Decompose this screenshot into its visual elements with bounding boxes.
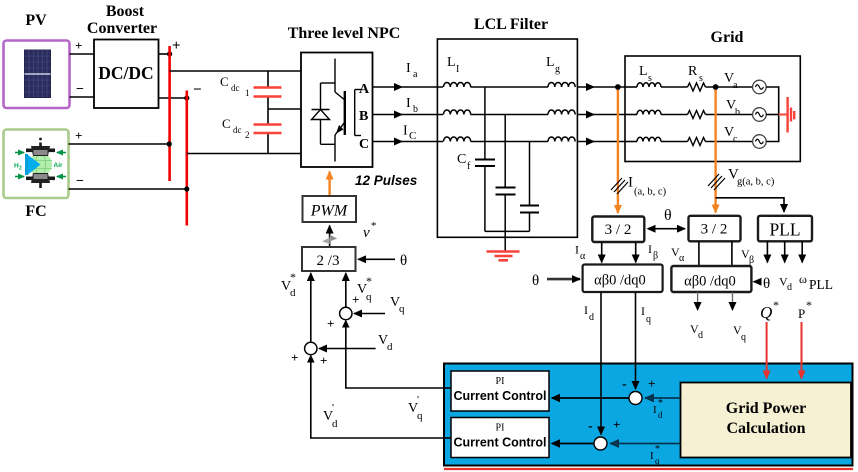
summer S1 (Vq) [340,307,352,319]
node FC- [184,186,189,191]
svg-text:Q: Q [760,303,772,322]
svg-text:αβ0 /dq0: αβ0 /dq0 [594,273,646,289]
transform block 3/2 (voltage) [689,216,741,242]
svg-text:dc: dc [233,125,242,135]
svg-text:PLL: PLL [809,277,833,292]
summer S2 (Vd) [305,342,317,354]
wire Vd into S2 [319,348,376,350]
PI current control 1 [451,371,549,411]
PLL block [758,216,812,242]
svg-text:+: + [352,292,359,307]
svg-text:I: I [650,450,654,462]
wire Vq into S1 [354,313,385,315]
PWM block [303,196,357,222]
svg-text:*: * [773,298,779,312]
bottom electrode [26,177,55,181]
svg-text:I: I [406,61,411,76]
svg-text:C: C [220,74,229,89]
wire theta exchange (double arrow) [648,228,685,230]
wire PLL out theta [766,241,768,262]
svg-text:s: s [699,73,703,84]
inductor Lg a [548,83,575,88]
wire Id* into S3 [645,397,681,399]
svg-text:q: q [366,291,372,303]
svg-text:*: * [655,444,660,455]
svg-text:α: α [580,251,586,262]
IGBT symbol [335,59,361,162]
wire Id down to summer [600,292,602,435]
capacitor Cdc1 [254,86,282,88]
wire PV- to DC/DC [70,96,95,98]
svg-text:d: d [290,287,296,299]
svg-text:Calculation: Calculation [726,420,805,437]
FC box [4,130,69,199]
svg-text:+: + [291,350,298,365]
transform block 2/3 [302,247,356,271]
ground (red) [487,252,520,261]
wire PI1 output stub [444,387,452,389]
wire PI2 output stub [444,437,452,439]
LCL filter box [437,39,577,237]
svg-text:f: f [467,161,471,172]
svg-text:P: P [798,306,805,321]
svg-text:C: C [222,116,231,131]
wire DC/DC+ to bus [159,53,171,55]
wire FC- to bus2 [69,188,188,190]
svg-text:Grid: Grid [711,29,744,46]
PV panel graphic [25,50,51,98]
wire LCL out A [577,86,625,88]
node FC+ [167,141,172,146]
wire phase C to LCL [373,141,444,143]
wire Iq down to summer [635,292,637,389]
wire phase A to LCL [373,86,444,88]
node current sense [615,84,621,90]
wire DC link top rail [170,70,301,72]
svg-text:a: a [733,80,738,91]
top electrode [26,149,55,153]
svg-text:L: L [639,64,648,79]
node sense V redraw [713,84,719,90]
wire sources to neutral [766,87,779,142]
svg-text:+: + [648,376,655,391]
svg-text:θ: θ [532,273,539,289]
svg-text:2 /3: 2 /3 [317,253,340,269]
source Vc [753,135,767,149]
wire Vd* up to 2/3 [310,273,312,342]
svg-text:-: - [588,419,593,434]
fuel cell icon [14,138,66,188]
svg-text:C: C [359,137,369,152]
wire S3 to PI1 [552,397,629,399]
svg-text:Converter: Converter [87,20,157,37]
svg-text:+: + [75,128,82,143]
inductor Lg c [548,137,575,142]
svg-text:2: 2 [245,130,250,140]
svg-text:s: s [648,73,652,84]
svg-text:β: β [749,255,754,266]
wire Vq' into S1 from below [346,322,444,389]
svg-text:R: R [688,64,698,79]
svg-text:θ: θ [400,253,407,269]
capacitor Cdc2 [254,123,282,125]
svg-text:I: I [403,124,408,139]
node voltage sense [713,84,719,90]
svg-text:LCL Filter: LCL Filter [474,16,548,33]
svg-text:dc: dc [231,83,240,93]
svg-text:g: g [555,64,560,75]
svg-text:−: − [193,82,202,98]
svg-text:q: q [741,332,746,343]
svg-text:q: q [646,314,651,325]
svg-text:I: I [641,304,645,318]
inductor Lg b [548,110,575,115]
svg-text:−: − [76,82,84,97]
svg-text:d: d [698,330,703,341]
red base line [444,468,853,470]
svg-text:b: b [735,107,740,118]
svg-text:c: c [733,134,738,145]
svg-text:I: I [628,175,633,191]
wire Valpha down [698,241,700,266]
resistor Rs b [688,111,706,119]
wire PLL out Vd [784,241,786,262]
svg-text:q: q [399,303,405,315]
svg-text:Boost: Boost [106,3,145,20]
grid box [625,56,800,162]
svg-text:a: a [413,69,418,80]
svg-text:(a, b, c): (a, b, c) [634,187,667,198]
svg-text:Three level NPC: Three level NPC [288,25,401,42]
svg-text:+: + [172,38,181,54]
summer S4 (Iq) [594,437,607,450]
svg-text:Current Control: Current Control [453,436,546,450]
wire current measurement (orange) [617,87,619,213]
svg-text:α: α [679,253,685,264]
svg-text:-: - [622,377,627,392]
wire to ground [504,231,506,251]
svg-text:−: − [76,174,84,189]
svg-text:I: I [584,303,588,317]
capacitor Cf branch A [484,87,486,159]
capacitor Cf branch C [529,142,531,206]
svg-text:DC/DC: DC/DC [98,63,153,83]
svg-text:d: d [589,312,594,323]
svg-text:*: * [366,274,372,288]
inductor L1 c [444,137,471,142]
svg-text:d: d [332,418,338,430]
node sense I redraw [615,84,621,90]
transform block ab0/dq0 (current) [583,265,663,293]
svg-text:*: * [371,220,377,232]
wire Ibeta down [635,242,637,263]
svg-text:3 / 2: 3 / 2 [701,222,728,238]
svg-text:β: β [653,251,658,262]
wire DC link bottom rail [187,153,301,155]
svg-text:A: A [359,82,370,97]
transform block ab0/dq0 (voltage) [671,266,751,292]
svg-text:θ: θ [664,207,672,224]
wire Vq out of dq block [732,292,734,310]
DC bus positive (red) [168,46,171,181]
wire cap midpoint to NPC [268,108,301,110]
wire FC+ to bus [69,143,171,145]
wire DC/DC- to bus2 [159,97,188,99]
sensor slashes I [611,178,628,194]
control zone (blue) [444,364,853,466]
svg-text:I: I [575,243,579,257]
svg-text:v: v [363,225,370,241]
wire Cf common rail [485,230,530,232]
inverter NPC box [301,53,373,168]
wire Q* (red) [766,322,768,379]
sensor slashes V [708,174,725,190]
svg-text:12 Pulses: 12 Pulses [355,173,418,188]
wire Vq* up to 2/3 [345,273,347,307]
svg-text:PV: PV [25,12,47,29]
svg-text:*: * [658,398,663,409]
svg-text:I: I [456,64,459,75]
wire PLL out w [801,241,803,262]
wires Rs to sources [706,86,753,88]
svg-text:d: d [387,341,393,353]
svg-text:3 / 2: 3 / 2 [605,222,632,238]
PI current control 2 [451,418,549,458]
resistor Rs a [688,83,706,91]
svg-text:I: I [653,404,657,416]
svg-text:': ' [417,394,419,406]
wire PV+ to DC/DC [70,53,95,55]
wire phase B to LCL [373,114,444,116]
wire S4 to PI2 [552,443,594,445]
svg-text:PLL: PLL [769,220,800,240]
wire Vd out of dq block [697,292,699,310]
svg-text:+: + [75,38,82,53]
capacitor Cf branch B [504,115,506,188]
redraw Id/Iq lines over blue [600,364,602,435]
svg-text:+: + [320,353,327,368]
DC bus negative (red) [186,91,189,226]
svg-text:FC: FC [25,203,46,220]
svg-text:+: + [613,417,620,432]
svg-text:b: b [413,104,418,115]
wire P* (red) [801,322,803,379]
wire voltage measurement (orange) [714,87,716,213]
ground neutral (red) [779,114,788,116]
inductor Ls a [637,83,661,87]
wire to PLL [716,198,784,212]
wire Vd' into S2 from below [311,357,444,439]
svg-text:θ: θ [763,276,770,292]
wire LCL out C [577,141,625,143]
svg-text:PWM: PWM [310,203,349,220]
svg-text:*: * [290,270,296,284]
node DC+ [167,51,172,56]
wire theta into ab0/dq0 current [547,278,580,281]
wire Vbeta down [731,241,733,266]
svg-text:Grid Power: Grid Power [726,400,806,417]
wire PWM to NPC (orange) [328,172,330,197]
svg-text:Current Control: Current Control [453,389,546,403]
svg-text:αβ0 /dq0: αβ0 /dq0 [684,274,736,290]
svg-text:C: C [457,152,466,167]
transform block 3/2 (current) [592,217,644,243]
svg-text:B: B [359,109,368,124]
svg-text:1: 1 [245,88,250,98]
wire Iq* into S4 [610,443,681,445]
svg-text:q: q [655,456,660,466]
source Va [753,80,767,94]
inductor L1 a [444,83,471,88]
svg-text:d: d [658,410,663,420]
boost converter DC/DC box [94,40,159,109]
diode D1 [312,83,336,144]
wire mid A [471,86,549,88]
gas arrows [15,153,66,177]
svg-text:q: q [417,410,423,422]
svg-text:PI: PI [496,423,505,434]
node DC- [184,95,189,100]
svg-text:ω: ω [799,272,807,286]
wire cap chain [267,71,269,87]
svg-text:2: 2 [19,166,22,172]
svg-text:d: d [787,282,792,293]
PV module box [4,41,70,109]
svg-text:g(a, b, c): g(a, b, c) [737,177,775,188]
source Vb [753,108,767,122]
wire theta into 2/3 [358,258,395,260]
wire LCL out B [577,114,625,116]
svg-text:PI: PI [496,376,505,387]
svg-text:C: C [409,130,416,142]
wire theta into ab0/dq0 voltage [754,281,762,283]
svg-text:L: L [447,55,456,70]
svg-text:*: * [806,298,812,312]
svg-text:I: I [406,96,411,111]
resistor Rs c [688,138,706,146]
svg-text:Air: Air [54,162,64,169]
wire 2/3 to PWM vector arrow [329,226,331,248]
svg-text:L: L [546,55,555,70]
svg-text:': ' [332,402,334,414]
summer S3 (Id) [629,392,642,405]
inductor L1 b [444,110,471,115]
grid power calculation block [681,383,852,458]
wires between Ls and Rs [625,86,637,88]
wire Ialpha down [601,242,603,263]
svg-text:+: + [327,316,334,331]
svg-text:I: I [648,242,652,256]
